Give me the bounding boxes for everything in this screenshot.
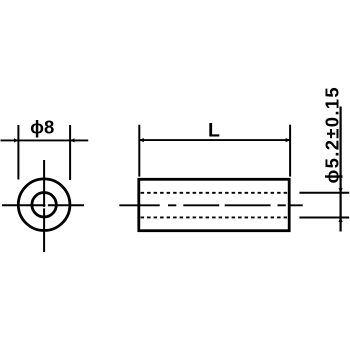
phi5.2 vertical dimension line xyxy=(340,107,342,232)
end view outer circle (OD 8) xyxy=(18,179,70,231)
side view hidden bore line top (dashed) xyxy=(141,192,288,194)
L arrow left (inside, pointing left) xyxy=(139,138,144,142)
svg-text:L: L xyxy=(208,120,220,142)
end view inner circle (bore 5.2) xyxy=(32,193,56,217)
phi8 dimension extension line right xyxy=(69,125,71,180)
end view horizontal centerline xyxy=(2,204,84,206)
L dimension extension line left xyxy=(138,125,140,177)
end view vertical centerline xyxy=(43,160,45,252)
phi8 arrow right (outside, pointing left) xyxy=(70,138,74,142)
phi8 dimension line xyxy=(1,139,89,141)
svg-text:ϕ5.2±0.15: ϕ5.2±0.15 xyxy=(322,86,343,183)
side view hidden bore line bottom (dashed) xyxy=(141,216,288,218)
svg-text:ϕ8: ϕ8 xyxy=(30,117,54,138)
L dimension extension line right xyxy=(289,125,291,177)
phi8 arrow left (outside, pointing right) xyxy=(14,138,18,142)
side view chain centerline xyxy=(119,204,302,206)
phi5.2 arrow top (outside, pointing down) xyxy=(339,188,343,192)
phi5.2 dimension extension line top xyxy=(299,192,349,194)
phi8 dimension extension line left xyxy=(17,125,19,180)
L arrow right (inside, pointing right) xyxy=(286,138,291,142)
phi5.2 arrow bottom (outside, pointing up) xyxy=(339,218,343,222)
L dimension line xyxy=(139,139,290,141)
phi5.2 dimension extension line bottom xyxy=(299,217,349,219)
side view body rectangle xyxy=(139,179,289,230)
